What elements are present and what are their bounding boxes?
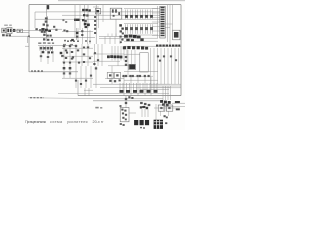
connector XP1 contact 6	[161, 18, 165, 20]
wire vertical x84.5	[84, 5, 86, 28]
dark label row capacitors C10-C13	[124, 35, 128, 38]
value labels row y41	[64, 40, 66, 42]
connector XP1 contact 5	[161, 16, 165, 18]
connector XP1 contact 9	[161, 25, 165, 27]
wire vertical into bottom-left corner	[77, 80, 79, 96]
connector XP1 contact 13	[161, 35, 165, 37]
marks below lamp box	[120, 123, 122, 125]
horizontal wire y62	[62, 61, 93, 63]
dashed output wire	[30, 97, 44, 99]
frame left border	[28, 5, 30, 72]
transistor T2 label blobs top	[82, 9, 85, 11]
terminal cluster dark blobs	[160, 100, 163, 103]
verticals lower right	[123, 77, 125, 96]
resistor R4	[43, 24, 45, 26]
wire vertical x75	[74, 5, 76, 38]
relay K1 box	[173, 30, 180, 40]
wire from Tr2 down	[115, 19, 117, 36]
fuse holder F1	[125, 96, 127, 108]
wire y80 right	[124, 79, 158, 81]
connector XP1 contact 2	[161, 9, 165, 11]
choke L3	[134, 10, 136, 20]
svg-text:Принципиальная: Принципиальная	[25, 120, 46, 124]
lamp box with hatch	[120, 107, 129, 121]
resistor R73	[80, 83, 82, 85]
collector wire y84.2 right	[150, 83, 181, 85]
resistor R75	[90, 75, 92, 77]
connector XP1 contact 1	[161, 7, 165, 9]
resistor R13 pair	[83, 14, 85, 16]
resistor faint pair left	[62, 19, 64, 21]
tube socket V1 box	[107, 72, 113, 78]
transformer Tr3 dark box	[129, 65, 135, 70]
capacitor C22	[75, 45, 77, 47]
transistor T2 knot	[84, 23, 87, 26]
bus wire y93.4	[58, 92, 169, 94]
tube socket V2 box	[114, 72, 120, 78]
value smudge center2	[70, 44, 73, 45]
bus wire y35	[124, 34, 158, 36]
resistor R50	[94, 52, 96, 54]
capacitor C21	[69, 45, 71, 47]
resistor R42	[77, 49, 79, 51]
resistor R33 vertical pair	[50, 46, 52, 51]
resistor R43	[87, 46, 89, 48]
capacitor C24	[71, 58, 73, 60]
capacitor C5 pair	[75, 28, 77, 40]
wire short bus	[93, 6, 99, 8]
resistor R3	[45, 21, 48, 23]
lamp socket dark checkered square	[154, 120, 163, 129]
resistor R1 box	[17, 29, 23, 32]
resistor R52	[93, 63, 95, 65]
wire y89.6	[140, 89, 169, 91]
vertical wires x94-102	[94, 44, 96, 66]
transformer Tr2 box	[110, 8, 122, 19]
frame bottom border	[78, 95, 181, 97]
wire vertical x87.4 lower	[86, 28, 88, 44]
capacitor C52 electrolytic	[133, 83, 135, 90]
switch stack wires	[141, 109, 143, 117]
wire frame-left to output node	[29, 71, 78, 73]
bus wire 2	[62, 14, 160, 16]
wire short ground stub	[27, 36, 29, 43]
connector XP1 contact 12	[161, 32, 165, 34]
bus wire above choke row	[124, 8, 158, 10]
resistor ladder R23	[139, 24, 141, 34]
resistor ladder R25	[149, 24, 151, 34]
input jack box	[2, 28, 6, 33]
output pair resistors	[123, 75, 125, 77]
resistor R64	[175, 59, 177, 61]
wire bus y38.5 center	[99, 38, 122, 40]
wire stubs above bus center	[107, 34, 109, 37]
vertical x96 lower	[95, 66, 97, 88]
horizontal wire y61	[93, 60, 120, 62]
connector XP1 body	[160, 6, 165, 38]
wire stub to relay top	[166, 23, 173, 25]
wire y87.6 long	[100, 87, 170, 89]
svg-text:20-х гг: 20-х гг	[93, 120, 105, 124]
verticals lower center	[63, 66, 65, 78]
vertical x156 bottom	[155, 104, 157, 120]
resistor R8	[63, 30, 65, 32]
wire stub crossing frame	[25, 45, 29, 47]
resistor R31 vertical pair	[43, 46, 45, 51]
resistor R48	[89, 57, 91, 59]
resistor R47	[83, 61, 85, 63]
connector input stub wires	[152, 8, 160, 10]
svg-text:схема: схема	[50, 120, 63, 124]
wire to right edge	[172, 102, 185, 104]
resistor R49c	[78, 62, 80, 64]
wire y71.4 right	[124, 70, 158, 72]
input transformer Tr1	[7, 28, 12, 34]
resistor R40	[65, 49, 67, 51]
resistor R5	[35, 28, 37, 30]
vertical wires center block	[63, 44, 65, 66]
microphone M input text label	[4, 25, 8, 26]
bus wire 3	[35, 18, 160, 20]
capacitor C41	[69, 67, 72, 69]
wire input row mid	[23, 31, 29, 33]
capacitor C6 dark	[71, 39, 74, 41]
bus wire y23.5	[124, 23, 158, 25]
resistor R70	[63, 72, 65, 74]
capacitor C23	[65, 57, 67, 59]
connector XP1 contact 7	[161, 21, 165, 23]
capacitor C20	[63, 45, 65, 47]
wire y78 center-right	[105, 77, 124, 79]
wire stub to relay mid	[166, 27, 171, 29]
dark capacitor band C25-C29	[107, 55, 110, 58]
capacitor C54 electrolytic	[146, 83, 148, 90]
mark right of square	[165, 122, 167, 124]
capacitor C3	[46, 24, 48, 26]
wire vertical x90 lower	[89, 30, 91, 44]
resistor R44	[83, 53, 85, 55]
wire bus1 left segment	[35, 11, 47, 13]
designation smudge bottom-left	[95, 107, 98, 109]
socket box X2	[166, 105, 173, 111]
connector XP1 contact 3	[161, 11, 165, 13]
wire bus y36.5 center	[99, 36, 124, 38]
transformer Tr2 windings	[112, 9, 114, 12]
bus wire y46.2 right	[124, 45, 181, 47]
resistor R60	[157, 55, 159, 57]
wire between sockets	[154, 107, 180, 109]
page top edge	[58, 0, 185, 2]
capacitor row below	[42, 51, 45, 53]
collector wire y87.8 right	[150, 87, 181, 89]
verticals below ladder	[40, 51, 42, 62]
wire double vertical x96-98	[95, 5, 97, 44]
long bus wire B bottom	[93, 100, 163, 102]
resistor R30 vertical pair	[39, 46, 41, 51]
resistor R36	[40, 55, 42, 57]
switch stack top marks	[140, 106, 142, 108]
choke L2	[129, 10, 131, 20]
bus wire y54 right short	[124, 53, 140, 55]
verticals to bottom frame	[84, 88, 86, 96]
resistor R74	[85, 80, 87, 82]
capacitor C1	[13, 29, 15, 32]
wires left of connector	[156, 6, 158, 38]
capacitor C40	[63, 67, 66, 69]
connector XP1 contact 10	[161, 28, 165, 30]
resistor R32 vertical pair	[46, 46, 48, 51]
signal bus wire stage1	[29, 37, 95, 39]
resistor R49b	[72, 56, 74, 58]
wire y76 right	[122, 75, 153, 77]
vertical wires x112-127	[111, 46, 113, 61]
wire y84 long	[93, 83, 170, 85]
svg-text:усилителя: усилителя	[67, 120, 88, 124]
choke L1	[124, 10, 126, 20]
resistor R62	[170, 55, 172, 57]
resistor R14 pair	[82, 19, 84, 21]
harness verticals right half	[150, 48, 152, 84]
resistor R37	[47, 56, 49, 58]
frame top border	[29, 4, 181, 6]
capacitor C2	[45, 17, 48, 19]
resistor R61	[163, 55, 165, 57]
transistor T1 dark knot	[41, 28, 44, 31]
wire emitter vertical	[45, 33, 47, 41]
choke L4	[139, 10, 141, 20]
bus wire y98.8	[118, 98, 163, 100]
wires right of connector	[167, 5, 169, 42]
junction node at frame	[28, 35, 30, 37]
terminal strip dashes right	[156, 45, 158, 47]
capacitor C51 electrolytic	[126, 83, 128, 90]
wire y31.3 stage2	[62, 30, 93, 32]
value label smudges above	[38, 42, 41, 44]
capacitor C26a	[66, 52, 68, 54]
resistor R9	[66, 30, 68, 32]
horizontal wire y54 center-right	[93, 53, 124, 55]
coupling components right of T1	[53, 26, 55, 28]
wire y90.2 short	[84, 89, 93, 91]
wire vertical x88	[87, 5, 89, 28]
resistor R41	[71, 51, 73, 53]
wire from lamp box	[129, 112, 136, 114]
pins below cluster	[163, 107, 165, 111]
capacitor C55 electrolytic	[153, 83, 155, 90]
horizontal wire y65.8	[108, 65, 130, 67]
dark pair right	[60, 52, 63, 54]
choke L5	[144, 10, 146, 20]
resistor R72	[75, 80, 77, 82]
dark cluster right of center	[119, 24, 122, 26]
resistor R7	[43, 38, 45, 40]
wire to stage 2	[51, 28, 62, 30]
resistor ladder R24	[144, 24, 146, 34]
verticals mid-left block	[127, 50, 129, 76]
resistor R2 on frame top	[47, 5, 50, 9]
choke L6	[149, 10, 151, 20]
connector XP1 contact 11	[161, 30, 165, 32]
wire y106.7 to right edge	[163, 106, 185, 108]
diode box VD1	[95, 9, 100, 14]
frame right border	[180, 5, 182, 96]
small cluster under cap row	[128, 96, 130, 98]
connector XP1 contact 8	[161, 23, 165, 25]
resistor ladder R20	[124, 24, 126, 34]
wire vertical x103	[102, 5, 104, 22]
resistor R49	[83, 47, 85, 49]
switch S1 contact block row	[134, 120, 138, 125]
vertical x112 lower	[111, 66, 113, 84]
dark row capacitors C30-C35	[123, 46, 126, 49]
verticals dropping x105-120	[104, 37, 106, 45]
wire y78 lower	[62, 77, 93, 79]
wire input row top	[12, 29, 29, 31]
collector wire y86 right	[150, 85, 181, 87]
lower input components row	[2, 34, 5, 36]
bus wire +U top	[47, 11, 160, 13]
resistor R45	[63, 62, 65, 64]
column resistors left x126	[125, 56, 127, 58]
resistor R46	[69, 62, 71, 64]
wire stub left bus	[34, 12, 36, 28]
wire vertical x80	[79, 5, 81, 30]
socket box X1	[158, 105, 165, 111]
bus wire y45.4 left	[38, 44, 75, 46]
plug dash	[176, 109, 180, 111]
switch S1 pins below	[140, 127, 142, 128]
label smudge stage2	[74, 19, 80, 21]
horizontal wire y56	[62, 55, 93, 57]
capacitor C53 electrolytic	[139, 83, 141, 90]
long thin output wire	[28, 97, 118, 100]
bus wire y41	[124, 40, 158, 42]
emitter components R6 C4	[43, 34, 45, 36]
vertical from band down	[117, 61, 119, 67]
wire vertical collector T1	[45, 9, 47, 35]
capacitor C50 electrolytic	[119, 83, 121, 90]
left terminal medium blobs	[140, 102, 143, 104]
box module tall	[140, 53, 148, 72]
value smudge center1	[63, 44, 66, 45]
resistor R63	[159, 60, 161, 62]
resistor ladder R21	[129, 24, 131, 34]
resistor R71	[69, 72, 71, 74]
resistor chain left column	[94, 16, 96, 18]
wire base T1 from input	[29, 29, 42, 31]
fuse dark dash right	[175, 101, 180, 103]
junction blob under frame	[120, 105, 122, 107]
resistor ladder R22	[134, 24, 136, 34]
resistor R10 on x82	[81, 28, 83, 44]
node a output label ticks	[31, 70, 32, 71]
bus wire y38	[122, 37, 158, 39]
capacitor C42	[95, 67, 97, 69]
wire input row bottom	[11, 35, 29, 37]
socket pins below	[160, 111, 162, 116]
verticals into terminal cluster	[162, 86, 164, 100]
horizontal wire y48	[62, 47, 93, 49]
connector XP1 contact 4	[161, 14, 165, 16]
resistor under sockets	[109, 80, 111, 82]
resistor R51	[97, 59, 99, 61]
pin pair small	[164, 115, 166, 117]
